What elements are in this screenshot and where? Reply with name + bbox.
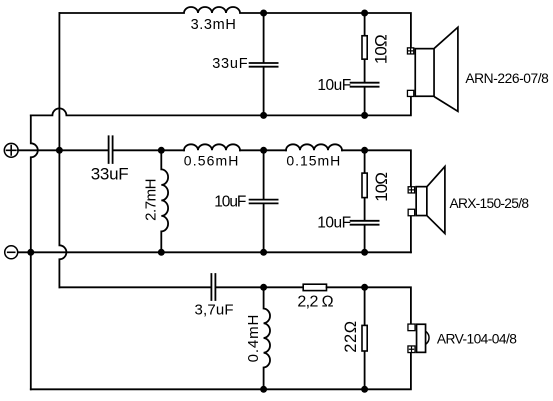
svg-text:0.4mH: 0.4mH	[245, 315, 262, 363]
svg-text:2.7mH: 2.7mH	[143, 179, 160, 221]
svg-text:ARN-226-07/8: ARN-226-07/8	[465, 71, 549, 86]
svg-text:10uF: 10uF	[317, 77, 351, 94]
svg-text:0.15mH: 0.15mH	[286, 153, 340, 169]
svg-text:33uF: 33uF	[91, 165, 129, 184]
svg-text:3.3mH: 3.3mH	[191, 17, 236, 33]
svg-text:22Ω: 22Ω	[342, 321, 360, 353]
svg-text:3,7uF: 3,7uF	[195, 302, 234, 319]
svg-text:10Ω: 10Ω	[372, 34, 391, 64]
svg-text:33uF: 33uF	[212, 56, 248, 72]
svg-text:ARX-150-25/8: ARX-150-25/8	[450, 196, 530, 211]
svg-text:2,2 Ω: 2,2 Ω	[297, 294, 333, 311]
svg-text:10uF: 10uF	[317, 215, 351, 232]
svg-text:0.56mH: 0.56mH	[184, 153, 239, 169]
svg-text:10uF: 10uF	[214, 193, 246, 210]
svg-text:ARV-104-04/8: ARV-104-04/8	[437, 332, 517, 347]
svg-text:10Ω: 10Ω	[372, 172, 391, 202]
